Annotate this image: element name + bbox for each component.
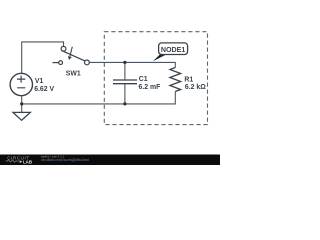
capacitor C1 (113, 80, 137, 84)
svg-text:LAB: LAB (23, 159, 32, 164)
wire V1 bottom to ground (21, 96, 23, 113)
svg-text:circuitlab.com/c/cuzrtq2jh5bc2: circuitlab.com/c/cuzrtq2jh5bc2ezd (41, 158, 89, 162)
wire bottom rail and R1 bottom lead (22, 92, 176, 104)
svg-text:R1: R1 (184, 76, 193, 83)
resistor R1 (170, 68, 181, 92)
wire C1 bottom branch (124, 84, 126, 104)
svg-text:NODE1: NODE1 (161, 46, 185, 54)
wire switch to top rail and R1 top lead (89, 62, 175, 67)
dashed subcircuit box (104, 32, 207, 125)
open throw circle (59, 61, 63, 65)
footer bar (0, 154, 220, 165)
wire V1 top to switch (22, 42, 64, 74)
node junction dot bottom (C1/bottom rail) (123, 102, 126, 105)
switch SW1 (53, 46, 90, 64)
svg-text:SW1: SW1 (66, 70, 81, 77)
node junction dot top (C1/top rail) (123, 61, 126, 64)
lever (61, 50, 85, 61)
svg-text:V1: V1 (35, 78, 44, 85)
node NODE1 flag (153, 43, 188, 61)
throw terminal circle (top) (61, 46, 66, 51)
logo zigzag (6, 160, 19, 162)
logo LAB (20, 160, 23, 163)
svg-text:C1: C1 (139, 76, 148, 83)
wire C1 top branch (124, 62, 126, 79)
actuation arrow (70, 47, 72, 57)
node junction dot bottom left (V1/bottom rail) (20, 102, 23, 105)
voltage source V1 (10, 73, 32, 95)
svg-text:6.2 mF: 6.2 mF (139, 84, 161, 91)
svg-text:6.2 kΩ: 6.2 kΩ (185, 84, 206, 91)
ground (13, 112, 30, 120)
svg-text:6.62 V: 6.62 V (34, 86, 54, 93)
open throw stub (53, 62, 59, 64)
common terminal circle (right) (85, 60, 90, 65)
